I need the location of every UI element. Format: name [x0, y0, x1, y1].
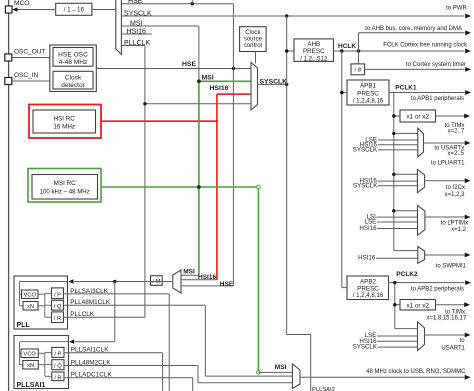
PLL /R divider box	[52, 312, 64, 323]
divider /M box	[151, 276, 163, 286]
wire HSE vertical to PLL mux	[232, 4, 234, 286]
PLLSAI1 /P divider box	[52, 347, 64, 357]
svg-text:HSE: HSE	[128, 0, 143, 5]
oscillator HSE OSC outer box	[50, 45, 97, 92]
node junction MSI green	[197, 186, 200, 189]
wire PLLSAI3CLK output	[64, 293, 170, 295]
wire PLL48M1CLK to 48M mux	[205, 375, 292, 377]
svg-text:x=1,2,3: x=1,2,3	[445, 192, 466, 198]
svg-text:/ P: / P	[54, 351, 61, 357]
svg-text:HSI16: HSI16	[210, 85, 229, 92]
svg-text:PRESC: PRESC	[357, 90, 379, 97]
svg-text:to PWR: to PWR	[446, 5, 467, 11]
wire HSI16 to USART mux	[378, 144, 418, 146]
PLLSAI1 VCO box	[21, 349, 38, 358]
svg-text:to: to	[460, 338, 466, 344]
svg-text:PLL: PLL	[17, 322, 31, 329]
svg-text:HSI RC: HSI RC	[54, 115, 76, 122]
mux SWPMI1 clock	[418, 247, 425, 264]
wire HCLK vertical to APB prescalers	[341, 51, 343, 288]
svg-text:to AHB bus, core, memory and D: to AHB bus, core, memory and DMA	[365, 26, 462, 32]
wire 48MHz output	[300, 376, 465, 378]
wire SYSCLK to MCO mux / to PWR	[121, 15, 464, 17]
svg-text:VCO: VCO	[23, 293, 36, 299]
wire PLLSAI3CLK vertical down	[168, 294, 170, 391]
svg-text:/ 1→16: / 1→16	[64, 7, 85, 14]
wire PLLCLK output	[64, 316, 145, 318]
wire PLL48M1CLK output	[64, 304, 206, 306]
PLL block box	[14, 276, 68, 329]
svg-text:MSI: MSI	[130, 20, 143, 27]
svg-text:/ 1,2,..512: / 1,2,..512	[300, 56, 328, 63]
wire HSI16 to PLL mux	[181, 279, 217, 281]
wire SYSCLK vertical bus	[286, 16, 288, 335]
svg-text:PRESC: PRESC	[303, 48, 325, 55]
svg-text:to LPTIMx: to LPTIMx	[441, 220, 468, 226]
svg-text:/ 8: / 8	[355, 68, 361, 74]
pin OSC_IN	[5, 78, 12, 85]
wire PLL48M2CLK vertical	[197, 366, 199, 383]
wire OSC_OUT to HSE OSC	[12, 57, 50, 59]
prescaler AHB PRESC box	[294, 39, 334, 62]
divider /8 box	[351, 64, 365, 75]
svg-text:PLL48M2CLK: PLL48M2CLK	[71, 359, 112, 366]
svg-text:PLLSAI1CLK: PLLSAI1CLK	[71, 347, 109, 354]
multiplier x1 or x2 box APB1	[400, 110, 436, 122]
PLL internal wiring	[20, 281, 68, 283]
node junction SYSCLK output	[285, 83, 288, 86]
svg-text:100 kHz – 48 MHz: 100 kHz – 48 MHz	[40, 189, 90, 196]
wire SYSCLK to USART mux	[378, 149, 418, 151]
svg-text:xN: xN	[27, 304, 34, 310]
svg-text:SYSCLK: SYSCLK	[260, 79, 288, 86]
mux SYSCLK select	[251, 62, 258, 110]
wire HSI16 stub to MCO mux	[121, 33, 151, 35]
oscillator MSI RC 100kHz-48MHz box green	[28, 169, 101, 203]
wire Cortex timer output	[365, 68, 465, 70]
wire MSI to MCO mux	[121, 25, 198, 27]
mux MCO source select	[116, 0, 122, 54]
wire HSE label line to MCO mux (clipped top)	[121, 3, 233, 5]
wire USART1 output	[425, 334, 465, 336]
wire MSI green vertical to PLL mux	[198, 81, 200, 275]
wire PCLK2 vertical	[394, 283, 396, 329]
mux PLL source select	[173, 270, 181, 293]
wire to AHB bus branch	[358, 33, 360, 51]
svg-text:x1 or x2: x1 or x2	[406, 113, 429, 120]
wire chip left edge	[8, 0, 10, 391]
wire PLLCLK to MCO mux	[121, 45, 144, 47]
svg-text:SYSCLK: SYSCLK	[353, 344, 378, 351]
svg-text:x1 or x2: x1 or x2	[406, 302, 429, 309]
svg-text:MSI: MSI	[202, 74, 214, 81]
svg-text:PLLCLK: PLLCLK	[124, 40, 150, 47]
node junction APB1 input	[340, 91, 343, 94]
PLLSAI1 /R divider box	[52, 372, 64, 381]
oscillator HSE OSC 4-48 MHz box	[53, 48, 93, 67]
svg-text:APB1: APB1	[360, 82, 377, 89]
wire PLL48M2CLK to 48M mux	[198, 382, 292, 384]
svg-text:control: control	[244, 42, 262, 49]
svg-text:PLLSAI3CLK: PLLSAI3CLK	[70, 288, 108, 295]
svg-text:PLLSAI1: PLLSAI1	[17, 382, 46, 389]
node junction HSE line top	[191, 2, 194, 5]
node junction AHB input	[285, 49, 288, 52]
svg-text:/ P: / P	[54, 292, 61, 298]
svg-text:SYSCLK: SYSCLK	[353, 183, 378, 190]
node junction HSI16 red	[216, 120, 219, 123]
wire TIMx apb2 output	[436, 304, 465, 306]
wire SYSCLK mux output	[258, 83, 287, 85]
wire into APB1 PRESC	[342, 92, 347, 94]
node junction MSI gray-green	[197, 80, 200, 83]
svg-text:PLL48M1CLK: PLL48M1CLK	[70, 299, 111, 306]
wire PCLK1 vertical	[393, 93, 395, 251]
wire MSI to 48M mux	[258, 371, 292, 373]
node junction MSI green overlay mid	[197, 185, 201, 189]
svg-text:detector: detector	[61, 82, 85, 89]
wire LSI to LPTIM mux	[377, 216, 418, 218]
wire PLL mux to /M	[151, 281, 173, 283]
svg-text:PLLSAI2: PLLSAI2	[312, 387, 335, 391]
wire PLL48M2CLK output	[64, 365, 198, 367]
svg-text:/ Q: / Q	[54, 304, 62, 310]
wire HSI16 to LPTIM mux	[377, 228, 417, 230]
wire PCLK1 to USART mux	[394, 132, 418, 134]
prescaler APB2 PRESC box	[347, 276, 389, 300]
wire I2Cx output	[425, 180, 465, 182]
wire PLLCLK vertical	[144, 46, 146, 318]
wire MSI green to SYSCLK mux	[199, 80, 251, 82]
svg-text:16 MHz: 16 MHz	[53, 123, 75, 130]
wire USARTx output	[424, 142, 465, 144]
PLLSAI1 xN box	[23, 361, 39, 370]
wire PCLK2 output	[389, 282, 465, 284]
wire SYSCLK jog to bottom	[287, 334, 311, 336]
clock source control box	[240, 27, 267, 52]
wire PCLK1 to SWPMI mux	[394, 250, 418, 252]
PLLSAI1 block box	[14, 336, 69, 389]
svg-text:HSE OSC: HSE OSC	[58, 51, 88, 58]
node junction HCLK branches	[340, 49, 343, 52]
wire MSI vertical gray segment	[198, 26, 200, 81]
svg-text:APB2: APB2	[360, 279, 377, 286]
svg-text:HSI16: HSI16	[358, 255, 376, 262]
svg-text:x=1,2: x=1,2	[451, 227, 467, 233]
wire HSI16 to SWPMI mux	[376, 257, 418, 259]
wire into x1 or x2 TIM apb2	[395, 304, 400, 306]
mux 48 MHz clock	[292, 364, 300, 389]
wire LSE to LPTIM mux	[377, 221, 418, 223]
wire TIMx output	[436, 115, 465, 117]
wire PLLADC1CLK output	[64, 377, 193, 379]
wire HSE output to SYSCLK mux	[96, 68, 251, 70]
wire MCO output with arrow	[18, 9, 56, 11]
node connection circle MSI bottom	[257, 371, 261, 375]
mux USARTx clock	[418, 128, 424, 157]
svg-text:Clock: Clock	[65, 75, 82, 82]
svg-text:/ 1,2,4,8,16: / 1,2,4,8,16	[353, 97, 384, 104]
svg-text:/ 1,2,4,8,16: / 1,2,4,8,16	[353, 292, 384, 299]
wire SWPMI1 output	[425, 254, 465, 256]
svg-text:MSI: MSI	[275, 364, 287, 371]
wire PLLCLK to SYSCLK mux	[145, 103, 251, 105]
pin MCO	[5, 6, 12, 13]
svg-text:to I2Cx: to I2Cx	[446, 185, 465, 191]
wire HSI16 red output	[101, 120, 217, 122]
svg-text:HSE: HSE	[182, 61, 196, 68]
svg-text:AHB: AHB	[307, 41, 320, 48]
node junction HSE vertical	[232, 67, 235, 70]
svg-text:x=2..5: x=2..5	[447, 151, 464, 157]
wire HSE to PLL mux	[181, 285, 233, 287]
svg-text:HCLK: HCLK	[338, 43, 356, 50]
wire HSI16 to I2C mux	[378, 180, 417, 182]
svg-text:to LPUART1: to LPUART1	[431, 161, 465, 167]
node junction PLL input branch	[113, 280, 116, 283]
wire PCLK1 to LPTIM mux	[394, 210, 418, 212]
svg-text:to APB1 peripherals: to APB1 peripherals	[411, 96, 464, 102]
svg-text:PCLK2: PCLK2	[396, 271, 418, 278]
wire PLLSAI1CLK output	[64, 352, 163, 354]
svg-text:HSI16: HSI16	[198, 274, 216, 281]
svg-text:to SWPMI1: to SWPMI1	[436, 263, 467, 269]
wire clock source control to mux	[255, 52, 257, 64]
divider /1-16 box	[56, 3, 92, 15]
svg-text:FCLK Cortex free running clock: FCLK Cortex free running clock	[383, 42, 468, 48]
mux LPTIMx clock	[418, 205, 425, 235]
svg-text:x=1,8,15,16,17: x=1,8,15,16,17	[426, 316, 467, 322]
svg-text:HSI16: HSI16	[127, 28, 147, 35]
wire divider to MCO mux	[93, 9, 116, 11]
mux I2Cx clock	[417, 169, 424, 192]
PLL /Q divider box	[52, 300, 64, 310]
clock detector box	[53, 71, 93, 89]
wire SYSCLK to I2C mux	[378, 185, 417, 187]
wire LSE to USART mux	[378, 139, 418, 141]
wire stub to /8 divider	[358, 51, 360, 64]
wire PCLK1 to I2C mux	[394, 173, 418, 175]
wire PLL48M1CLK vertical down	[204, 305, 206, 376]
PLL /P divider box	[52, 288, 64, 299]
svg-text:OSC_OUT: OSC_OUT	[14, 48, 45, 55]
wire into APB2 PRESC	[342, 287, 347, 289]
arrow to PWR	[465, 14, 471, 19]
wire PLLSAI1CLK vertical down	[162, 353, 164, 391]
svg-text:USART1: USART1	[441, 345, 465, 351]
svg-text:xN: xN	[27, 363, 34, 369]
PLLSAI1 internal wiring	[20, 341, 69, 343]
PLL VCO box	[22, 290, 39, 299]
wire into x1 or x2 TIM	[394, 115, 400, 117]
svg-text:OSC_IN: OSC_IN	[14, 72, 39, 79]
svg-text:/ R: / R	[54, 375, 61, 381]
wire /M output to PLL	[74, 281, 151, 283]
svg-text:SYSCLK: SYSCLK	[124, 10, 152, 17]
pin OSC_OUT	[5, 54, 12, 61]
svg-text:MSI: MSI	[183, 269, 195, 276]
wire LPTIMx output	[425, 216, 465, 218]
wire OSC_IN to HSE OSC	[12, 80, 50, 82]
mux USART1 clock	[418, 322, 425, 351]
node junction MSI green overlay top	[197, 79, 201, 83]
node junction PLLCLK branch	[143, 102, 146, 105]
svg-text:MSI RC: MSI RC	[54, 180, 76, 187]
svg-text:x=2..7: x=2..7	[448, 129, 465, 135]
wire LSE to USART1 mux	[377, 335, 418, 337]
wire HSI16 red vertical	[216, 94, 218, 280]
multiplier x1 or x2 box APB2	[400, 300, 436, 311]
prescaler APB1 PRESC box	[347, 80, 389, 105]
svg-text:to TIMx: to TIMx	[445, 309, 465, 315]
wire SYSCLK to USART1 mux	[378, 346, 418, 348]
svg-text:PLLADC1CLK: PLLADC1CLK	[71, 372, 113, 379]
svg-text:MCO: MCO	[14, 0, 29, 7]
wire PLLADC1CLK vertical down	[192, 378, 194, 391]
wire HSI16 red to SYSCLK mux	[217, 93, 251, 95]
oscillator HSI RC 16 MHz box red	[29, 105, 101, 139]
node junction SYSCLK bus top	[285, 14, 288, 17]
wire HSI16 to USART1 mux	[377, 340, 417, 342]
svg-text:/ M: / M	[152, 279, 160, 285]
wire MSI green vertical to 48M mux	[257, 187, 259, 372]
PLLSAI1 /Q divider box	[52, 360, 64, 370]
wire MSI to PLL mux	[181, 274, 199, 276]
svg-text:4-48 MHz: 4-48 MHz	[59, 59, 88, 66]
svg-text:VCO: VCO	[23, 352, 36, 358]
svg-text:to Cortex system timer: to Cortex system timer	[406, 62, 466, 68]
wire HCLK FCLK output	[334, 50, 465, 52]
svg-text:to APB2 peripherals: to APB2 peripherals	[411, 286, 464, 292]
svg-text:48 MHz clock to USB, RNG, SDMM: 48 MHz clock to USB, RNG, SDMMC	[366, 369, 466, 375]
wire SYSCLK into AHB PRESC	[287, 50, 294, 52]
wire PLL input vertical to PLLSAI1	[114, 282, 116, 342]
PLL xN box	[23, 302, 38, 311]
svg-text:PLLCLK: PLLCLK	[70, 311, 95, 318]
svg-text:PCLK1: PCLK1	[395, 84, 417, 91]
svg-text:/ R: / R	[54, 316, 61, 322]
svg-text:HSI16: HSI16	[359, 225, 377, 232]
svg-text:SYSCLK: SYSCLK	[353, 147, 378, 154]
svg-text:HSE: HSE	[220, 281, 234, 288]
wire into PLLSAI1	[75, 341, 115, 343]
wire MSI green output	[101, 186, 258, 188]
wire PCLK1 output	[389, 92, 465, 94]
svg-text:/ Q: / Q	[54, 364, 62, 370]
wire PCLK2 to USART1 mux	[395, 328, 418, 330]
